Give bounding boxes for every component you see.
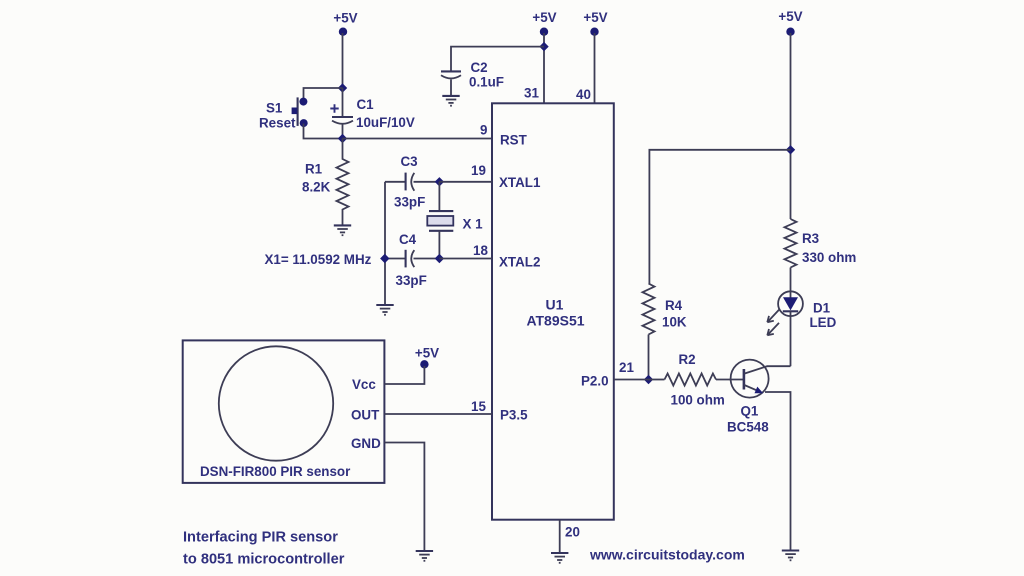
svg-text:U1: U1 <box>546 297 564 313</box>
svg-text:18: 18 <box>473 243 488 258</box>
resistor R2 <box>665 374 717 386</box>
wire Vcc to +5V <box>384 366 424 384</box>
PIR sensor module box <box>183 340 385 483</box>
svg-text:10uF/10V: 10uF/10V <box>356 115 415 130</box>
wire J7 to R2 <box>649 379 665 381</box>
svg-text:LED: LED <box>810 315 837 330</box>
svg-text:330 ohm: 330 ohm <box>802 250 856 265</box>
wire GND to ground <box>384 443 424 551</box>
svg-text:15: 15 <box>471 399 486 414</box>
wire J4 to XTAL1 pin <box>439 181 492 183</box>
resistor R3 <box>785 219 797 268</box>
svg-text:Interfacing PIR sensor: Interfacing PIR sensor <box>183 530 338 546</box>
svg-text:31: 31 <box>524 86 539 101</box>
svg-text:0.1uF: 0.1uF <box>469 75 504 90</box>
node J4 (XTAL1 net) <box>435 177 444 186</box>
LED light arrow 2 <box>767 323 779 335</box>
svg-text:8.2K: 8.2K <box>302 180 331 195</box>
wire pin 20 to ground <box>559 520 561 553</box>
ground (below R1) <box>334 225 351 235</box>
svg-text:S1: S1 <box>266 101 283 116</box>
transistor Q1 BC548 <box>731 360 769 398</box>
wire +5V to node J1 <box>342 33 344 88</box>
wire J2 to RST pin 9 <box>343 138 493 140</box>
svg-text:21: 21 <box>619 360 634 375</box>
switch S1 (pushbutton) <box>292 97 308 127</box>
svg-text:+5V: +5V <box>778 9 802 24</box>
power +5V terminal (reset rail) <box>333 11 357 36</box>
svg-text:XTAL1: XTAL1 <box>499 175 541 190</box>
svg-text:AT89S51: AT89S51 <box>526 313 584 329</box>
capacitor C4 <box>385 250 439 268</box>
LED light arrow 1 <box>767 310 779 322</box>
svg-text:P2.0: P2.0 <box>581 374 609 389</box>
ground (pin 20) <box>551 553 568 563</box>
svg-text:100 ohm: 100 ohm <box>671 393 725 408</box>
ground (PIR GND) <box>416 551 433 561</box>
svg-text:to 8051 microcontroller: to 8051 microcontroller <box>183 552 345 568</box>
node J1 (S1/C1 top junction) <box>338 83 347 92</box>
wire J1 to S1 top contact <box>304 88 343 101</box>
svg-text:+5V: +5V <box>415 346 439 361</box>
svg-text:33pF: 33pF <box>394 195 425 210</box>
svg-text:C1: C1 <box>357 97 375 112</box>
ground (crystal rail) <box>376 305 393 315</box>
svg-text:OUT: OUT <box>351 408 380 423</box>
svg-text:X1= 11.0592 MHz: X1= 11.0592 MHz <box>265 252 372 267</box>
svg-text:R1: R1 <box>305 162 323 177</box>
node J7 (P2.0 / R4 / R2 junction) <box>644 375 653 384</box>
PIR lens circle <box>219 346 333 460</box>
power +5V terminal (PIR Vcc) <box>415 346 439 369</box>
svg-text:20: 20 <box>565 525 580 540</box>
svg-text:C2: C2 <box>471 60 488 75</box>
svg-text:X 1: X 1 <box>463 217 484 232</box>
wire LED cathode to collector <box>790 316 792 366</box>
svg-text:R3: R3 <box>802 231 819 246</box>
node J2 (C1 bottom / RST net) <box>338 134 347 143</box>
wire +5V rail down to R3 <box>790 33 792 219</box>
svg-text:R2: R2 <box>679 352 696 367</box>
resistor R1 <box>337 139 349 226</box>
svg-text:DSN-FIR800 PIR sensor: DSN-FIR800 PIR sensor <box>200 464 351 479</box>
IC U1 AT89S51 body <box>492 103 614 519</box>
svg-text:D1: D1 <box>813 301 831 316</box>
svg-text:C4: C4 <box>399 232 417 247</box>
svg-text:Q1: Q1 <box>741 404 759 419</box>
svg-text:XTAL2: XTAL2 <box>499 255 540 270</box>
node J3 (C2 tap) <box>539 42 548 51</box>
svg-text:19: 19 <box>471 163 486 178</box>
wire R4 bottom to node J7 <box>648 335 650 380</box>
svg-text:GND: GND <box>351 436 381 451</box>
svg-text:P3.5: P3.5 <box>500 408 528 423</box>
wire J3 to C2 <box>451 47 544 72</box>
wire J5 to XTAL2 pin <box>439 258 492 260</box>
capacitor C3 <box>385 173 439 191</box>
capacitor C2 <box>441 71 461 95</box>
svg-text:33pF: 33pF <box>396 273 427 288</box>
node J5 (XTAL2 net) <box>435 254 444 263</box>
wire J8 to R4 top <box>649 150 790 284</box>
power +5V terminal (pin 40) <box>583 10 607 36</box>
ground (emitter) <box>782 551 799 561</box>
power +5V terminal (output rail) <box>778 9 802 36</box>
wire S1 bottom to node J2 <box>304 124 343 139</box>
svg-text:+5V: +5V <box>532 10 556 25</box>
svg-text:+5V: +5V <box>333 11 357 26</box>
svg-text:40: 40 <box>576 87 591 102</box>
svg-text:10K: 10K <box>662 315 687 330</box>
wire R3 to LED <box>790 268 792 293</box>
svg-text:Reset: Reset <box>259 116 296 131</box>
svg-text:+5V: +5V <box>583 10 607 25</box>
svg-text:www.circuitstoday.com: www.circuitstoday.com <box>589 547 745 563</box>
power +5V terminal (pin 31) <box>532 10 556 36</box>
capacitor C1 <box>330 88 353 139</box>
node J8 (R4 tap) <box>786 145 795 154</box>
wire +5V pin31 rail <box>543 33 545 103</box>
svg-text:RST: RST <box>500 132 528 147</box>
LED D1 <box>778 291 803 316</box>
wire R2 to Q1 base <box>716 379 744 381</box>
svg-text:Vcc: Vcc <box>352 377 376 392</box>
crystal X1 <box>427 182 453 259</box>
svg-text:9: 9 <box>480 122 487 137</box>
wire P2.0 pin 21 to J7 <box>614 379 649 381</box>
svg-text:C3: C3 <box>401 154 418 169</box>
svg-text:BC548: BC548 <box>727 420 769 435</box>
svg-text:R4: R4 <box>665 298 683 313</box>
wire +5V to pin 40 <box>594 33 596 103</box>
resistor R4 <box>643 284 655 335</box>
wire emitter to ground <box>765 392 791 550</box>
wire collector horizontal <box>767 365 791 367</box>
node J6 (C4 left junction) <box>380 254 389 263</box>
wire crystal left rail <box>384 182 386 305</box>
wire OUT to P3.5 pin 15 <box>384 413 492 415</box>
ground (below C2) <box>442 96 459 106</box>
